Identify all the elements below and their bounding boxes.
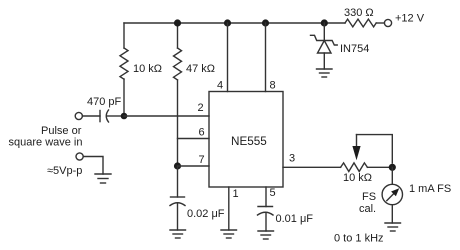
capacitor C1 470 pF: [100, 110, 121, 122]
svg-text:10 kΩ: 10 kΩ: [343, 172, 372, 184]
svg-text:4: 4: [217, 80, 223, 92]
svg-text:8: 8: [270, 80, 276, 92]
terminal +12 V: [384, 19, 391, 26]
capacitor C3 0.01 uF: [258, 207, 274, 232]
wire pin 3 to potentiometer: [283, 166, 341, 168]
capacitor C2 0.02 uF: [170, 166, 185, 230]
svg-text:10 kΩ: 10 kΩ: [133, 63, 162, 75]
terminal input return: [76, 153, 83, 160]
wire top supply rail: [124, 22, 345, 24]
ground input: [95, 174, 111, 183]
wire terminal to C1: [82, 115, 100, 117]
junction dot pin7/47k/C2: [174, 162, 181, 169]
svg-text:3: 3: [289, 153, 295, 165]
wire pin 7: [178, 165, 210, 167]
junction dot rail/47k: [174, 19, 181, 26]
wire pin 2: [124, 115, 209, 117]
svg-text:470 pF: 470 pF: [87, 96, 122, 108]
svg-text:47 kΩ: 47 kΩ: [186, 63, 215, 75]
resistor R2 47 kOhm: [174, 23, 182, 166]
ground C2: [170, 230, 186, 238]
svg-text:FS: FS: [362, 191, 376, 203]
wire pin 5 to C3: [265, 187, 267, 207]
svg-text:cal.: cal.: [359, 203, 376, 215]
wire input return to ground: [83, 157, 103, 175]
svg-text:0 to 1 kHz: 0 to 1 kHz: [334, 233, 384, 245]
svg-text:IN754: IN754: [340, 43, 369, 55]
svg-text:square wave in: square wave in: [9, 137, 83, 149]
zener diode D1 IN754: [311, 23, 338, 69]
ground below zener: [317, 69, 333, 77]
svg-text:NE555: NE555: [231, 135, 267, 148]
svg-text:7: 7: [199, 154, 205, 166]
wire rail to +12V terminal: [376, 22, 384, 24]
wire pin 4 to rail: [227, 23, 229, 92]
resistor R3 330 Ohm: [345, 19, 376, 27]
svg-text:1: 1: [233, 188, 239, 200]
op IC U1 NE555 body: [209, 92, 283, 188]
svg-text:0.02 μF: 0.02 μF: [187, 208, 225, 220]
wire pin 8 to rail: [265, 23, 267, 92]
ground meter: [385, 223, 401, 231]
potentiometer R4 10 kOhm: [341, 135, 393, 172]
junction dot rail/zener: [321, 19, 328, 26]
terminal input pulse: [75, 112, 82, 119]
svg-text:Pulse or: Pulse or: [41, 125, 82, 137]
ground C3: [258, 231, 274, 239]
junction dot pin2 node: [121, 113, 128, 120]
resistor R1 10 kOhm: [120, 23, 128, 113]
svg-text:5: 5: [270, 187, 276, 199]
svg-text:+12 V: +12 V: [395, 13, 425, 25]
ground pin 1: [221, 230, 237, 238]
wire pin 6: [178, 138, 210, 140]
junction dot rail/pin8: [262, 19, 269, 26]
svg-text:2: 2: [198, 102, 204, 114]
junction dot pot/meter: [389, 164, 396, 171]
svg-text:≈5Vp-p: ≈5Vp-p: [47, 165, 82, 177]
svg-text:0.01 μF: 0.01 μF: [276, 213, 314, 225]
junction dot rail/pin4: [224, 19, 231, 26]
svg-text:6: 6: [199, 127, 205, 139]
svg-text:330 Ω: 330 Ω: [344, 7, 374, 19]
meter M1 1 mA FS: [382, 167, 402, 223]
wire pin 1 to ground: [228, 187, 230, 230]
svg-text:1 mA FS: 1 mA FS: [409, 183, 451, 195]
